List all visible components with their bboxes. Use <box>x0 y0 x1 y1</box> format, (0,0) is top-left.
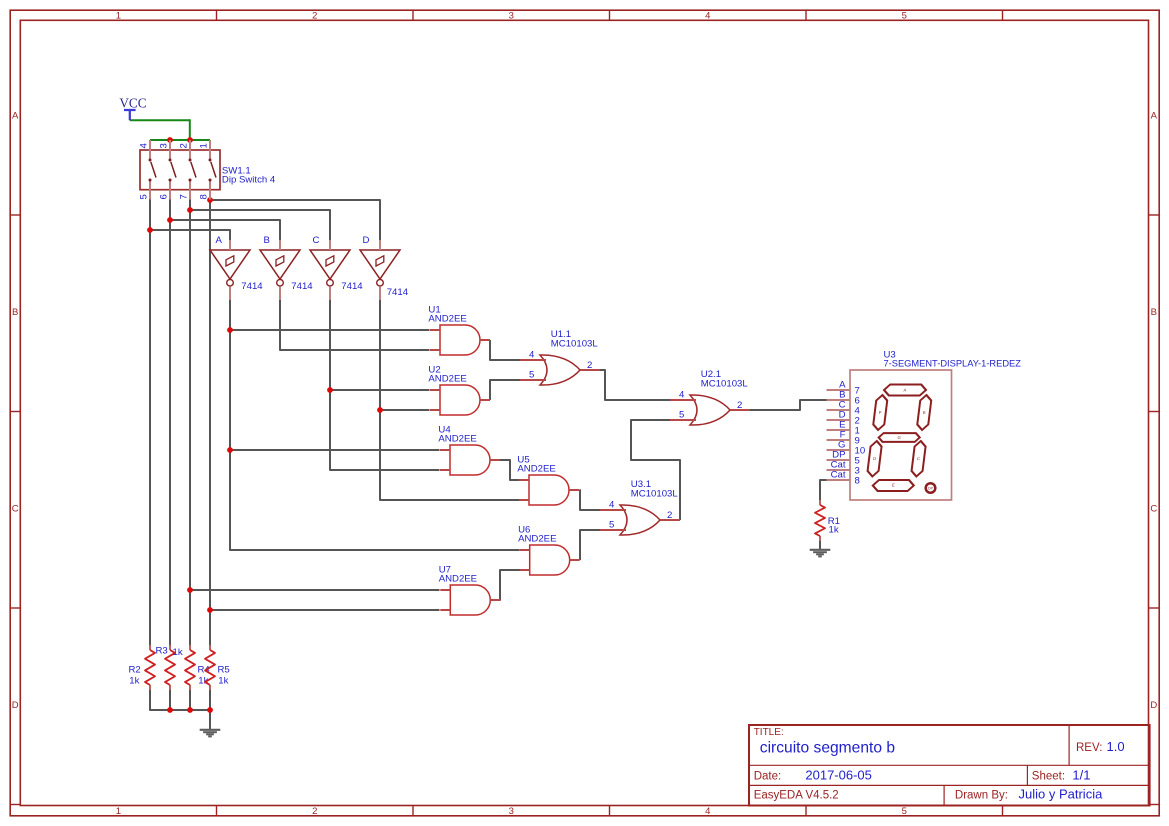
inverter D (7414) input stub <box>379 240 381 250</box>
svg-text:5: 5 <box>902 11 907 22</box>
resistor R3 top stub <box>169 645 171 650</box>
junction 190,210 <box>187 207 193 213</box>
wire inverter D output column <box>380 300 520 500</box>
svg-text:TITLE:: TITLE: <box>754 727 784 738</box>
wire U5 output to U3.1 pin4 <box>580 490 601 510</box>
svg-text:D: D <box>12 700 19 711</box>
svg-text:2: 2 <box>312 11 317 22</box>
inverter C (7414) triangle <box>310 250 350 279</box>
wire tap B y220 <box>170 220 280 240</box>
dip switch pole 3 lever <box>191 162 196 178</box>
svg-text:A: A <box>12 111 19 122</box>
display DP dot <box>926 483 936 493</box>
dip switch pole 1 top stub <box>149 140 151 160</box>
display pin D (2) <box>827 419 851 421</box>
svg-text:AND2EE: AND2EE <box>438 433 476 444</box>
and-gate U1 pin1 stub <box>430 329 440 331</box>
dip switch pole 2 contacts <box>169 159 172 162</box>
wire VCC green horizontal <box>130 119 190 121</box>
svg-text:8: 8 <box>855 476 860 487</box>
resistor R5 bottom stub <box>209 685 211 690</box>
and-gate U1 body <box>440 325 480 355</box>
title block REV divider <box>1068 725 1070 765</box>
dip switch pole 2 bottom stub <box>169 180 171 200</box>
or-gate U2.1 pin4 stub <box>670 399 696 401</box>
inverter D (7414) output stub <box>379 286 381 300</box>
display pin B (6) <box>827 399 851 401</box>
svg-text:Julio y Patricia: Julio y Patricia <box>1019 786 1104 801</box>
svg-text:7414: 7414 <box>241 281 263 292</box>
dip switch pole 4 contacts <box>209 159 212 162</box>
inverter C (7414) output stub <box>329 286 331 300</box>
inverter D (7414) triangle <box>360 250 400 279</box>
wire A to U4 input1 <box>230 449 440 451</box>
svg-text:2: 2 <box>667 510 672 521</box>
frame ruler ticks top <box>216 10 218 20</box>
svg-text:1k: 1k <box>218 675 228 686</box>
inverter C (7414) output bubble <box>327 279 334 286</box>
svg-text:B: B <box>1151 307 1157 318</box>
dip switch pole 2 lever <box>171 162 176 178</box>
and-gate U2 output stub <box>480 399 490 401</box>
svg-text:1k: 1k <box>829 525 839 536</box>
display pin G (10) <box>827 449 851 451</box>
svg-text:5: 5 <box>609 520 614 531</box>
junction green 190,140 <box>187 137 193 143</box>
junction 190,590 <box>187 587 193 593</box>
wire VCC green vertical <box>189 119 191 140</box>
display segments group <box>865 385 933 492</box>
resistor R1 zigzag <box>815 505 825 536</box>
svg-text:VCC: VCC <box>119 96 146 111</box>
and-gate U6 body <box>530 545 570 575</box>
wire tap D y200 <box>210 200 380 240</box>
and-gate U2 pin1 stub <box>430 389 440 391</box>
svg-text:REV:: REV: <box>1076 742 1102 754</box>
svg-text:AND2EE: AND2EE <box>439 573 477 584</box>
or-gate U3.1 pin5 stub <box>600 529 626 531</box>
wire inverter A output column <box>230 300 520 550</box>
or-gate U3.1 pin4 stub <box>600 509 626 511</box>
display pin DP (5) <box>827 459 851 461</box>
junction 170,220 <box>167 217 173 223</box>
or-gate U2.1 pin5 stub <box>670 419 696 421</box>
inverter D (7414) hysteresis symbol <box>376 256 384 266</box>
svg-text:Drawn By:: Drawn By: <box>955 789 1008 801</box>
svg-text:4: 4 <box>705 806 710 817</box>
svg-text:Dip Switch 4: Dip Switch 4 <box>222 174 276 185</box>
svg-text:EasyEDA V4.5.2: EasyEDA V4.5.2 <box>754 789 839 801</box>
and-gate U7 pin2 stub <box>440 609 450 611</box>
or-gate U1.1 pin5 stub <box>520 379 546 381</box>
and-gate U5 body <box>529 475 569 505</box>
dip switch pole 1 bottom stub <box>149 180 151 200</box>
title block outer <box>749 725 1150 806</box>
svg-text:5: 5 <box>679 410 684 421</box>
wire R1 to ground <box>819 541 821 550</box>
svg-text:MC10103L: MC10103L <box>701 379 749 390</box>
wire ground stub <box>209 710 211 730</box>
and-gate U7 pin1 stub <box>440 589 450 591</box>
svg-text:2: 2 <box>737 400 742 411</box>
wire green bus to switch pins <box>150 139 210 141</box>
svg-text:Date:: Date: <box>754 771 782 783</box>
junction 230,330 <box>227 327 233 333</box>
svg-text:R4: R4 <box>198 665 211 676</box>
svg-text:1: 1 <box>116 806 121 817</box>
wire U6 output to U3.1 pin5 <box>580 530 601 560</box>
svg-text:7-SEGMENT-DISPLAY-1-REDEZ: 7-SEGMENT-DISPLAY-1-REDEZ <box>884 359 1022 369</box>
wire pin6 column x170 <box>169 200 171 646</box>
and-gate U2 body <box>440 385 480 415</box>
or-gate U1.1 pin4 stub <box>520 359 546 361</box>
dip switch pole 3 bottom stub <box>189 180 191 200</box>
svg-text:2017-06-05: 2017-06-05 <box>805 768 872 783</box>
svg-text:2: 2 <box>179 143 190 148</box>
dip switch SW1.1 body <box>140 150 220 190</box>
svg-text:A: A <box>1151 111 1158 122</box>
dip switch pole 3 top stub <box>189 140 191 160</box>
svg-text:G: G <box>897 435 901 440</box>
svg-text:circuito segmento b: circuito segmento b <box>760 740 896 757</box>
resistor R4 bottom stub <box>189 685 191 690</box>
and-gate U2 pin2 stub <box>430 409 440 411</box>
wire R5 bottom <box>209 690 211 710</box>
svg-text:7414: 7414 <box>387 287 409 298</box>
svg-text:R2: R2 <box>129 665 141 676</box>
junction 210,710 <box>207 707 213 713</box>
VCC net flag <box>124 110 136 120</box>
wire U2 output to U1.1 pin5 <box>490 380 521 400</box>
inverter B (7414) hysteresis symbol <box>276 256 284 266</box>
junction 210,200 <box>207 197 213 203</box>
wire pin7 column x190 <box>189 200 191 646</box>
and-gate U4 pin1 stub <box>440 449 450 451</box>
svg-text:C: C <box>313 235 320 246</box>
svg-text:AND2EE: AND2EE <box>517 463 555 474</box>
svg-text:AND2EE: AND2EE <box>518 533 556 544</box>
dip switch pole 4 top stub <box>209 140 211 160</box>
dip switch pole 4 lever <box>211 162 216 178</box>
svg-text:B: B <box>264 235 270 246</box>
svg-text:3: 3 <box>509 11 514 22</box>
inverter B (7414) output bubble <box>277 279 284 286</box>
svg-text:A: A <box>216 235 223 246</box>
or-gate U3.1 output stub <box>660 519 680 521</box>
or-gate U2.1 body <box>690 395 730 425</box>
junction green 170,140 <box>167 137 173 143</box>
svg-text:C: C <box>1150 504 1157 515</box>
or-gate U1.1 output stub <box>580 369 600 371</box>
ground under R1 <box>810 549 831 551</box>
wire D to U2 input2 <box>380 409 430 411</box>
and-gate U6 pin1 stub <box>520 549 530 551</box>
and-gate U6 output stub <box>570 559 580 561</box>
and-gate U7 output stub <box>490 599 500 601</box>
title block row line 2 <box>749 784 1150 786</box>
7-segment display U3 box <box>850 370 952 500</box>
and-gate U1 output stub <box>480 339 490 341</box>
display pin C (4) <box>827 409 851 411</box>
wire inverter B output to U1 pin2 <box>280 300 430 350</box>
svg-text:4: 4 <box>679 390 685 401</box>
frame ruler ticks left <box>10 214 20 216</box>
and-gate U6 pin2 stub <box>520 569 530 571</box>
svg-text:1/1: 1/1 <box>1072 768 1090 783</box>
svg-text:1: 1 <box>199 143 210 148</box>
svg-text:Cat: Cat <box>831 470 846 481</box>
svg-text:5: 5 <box>529 370 534 381</box>
dip switch pole 1 contacts <box>149 159 152 162</box>
svg-text:D: D <box>873 456 877 461</box>
wire U1.1 output to U2.1 pin4 <box>600 370 671 400</box>
resistor R2 zigzag <box>145 650 155 685</box>
display pin A (7) <box>827 389 851 391</box>
svg-text:3: 3 <box>159 143 170 148</box>
resistor R2 top stub <box>149 645 151 650</box>
inverter D (7414) output bubble <box>377 279 384 286</box>
svg-text:7: 7 <box>179 194 190 199</box>
svg-text:4: 4 <box>139 143 150 149</box>
svg-text:4: 4 <box>529 350 535 361</box>
resistor R1 bottom stub <box>819 536 821 541</box>
frame ruler ticks right <box>1149 214 1160 216</box>
and-gate U1 pin2 stub <box>430 349 440 351</box>
svg-text:B: B <box>12 307 18 318</box>
inverter C (7414) input stub <box>329 240 331 250</box>
and-gate U5 pin1 stub <box>519 479 529 481</box>
svg-text:DP: DP <box>928 487 934 491</box>
and-gate U4 body <box>450 445 490 475</box>
svg-text:2: 2 <box>587 360 592 371</box>
junction 330,390 <box>327 387 333 393</box>
wire display Cat pin to R1 <box>820 480 827 500</box>
svg-text:7414: 7414 <box>341 281 363 292</box>
or-gate U2.1 output stub <box>730 409 750 411</box>
wire pin8 column x210 <box>209 200 211 646</box>
wire U4 output to U5 input1 <box>500 460 521 480</box>
wire R5 tap to U7 input2 <box>210 609 440 611</box>
svg-text:7414: 7414 <box>291 281 313 292</box>
svg-text:R5: R5 <box>218 665 230 676</box>
wire pin5 column x150 <box>149 200 151 646</box>
ground bottom rail <box>200 729 221 731</box>
junction 210,610 <box>207 607 213 613</box>
junction 190,710 <box>187 707 193 713</box>
resistor R3 bottom stub <box>169 685 171 690</box>
wire A to U1 input1 <box>230 329 430 331</box>
wire U2.1 output to display pin B <box>750 400 827 410</box>
svg-text:MC10103L: MC10103L <box>631 489 679 500</box>
wire R3 bottom <box>169 690 171 710</box>
dip switch pole 3 contacts <box>189 159 192 162</box>
resistor R1 top stub <box>819 500 821 505</box>
resistor R5 zigzag <box>205 650 215 685</box>
wire U7 output to U6 input2 <box>500 570 521 600</box>
inverter C (7414) hysteresis symbol <box>326 256 334 266</box>
wire R4 tap to U7 input1 <box>190 589 440 591</box>
svg-text:8: 8 <box>199 194 210 199</box>
svg-text:MC10103L: MC10103L <box>551 339 599 350</box>
svg-text:2: 2 <box>312 806 317 817</box>
svg-text:D: D <box>1150 700 1157 711</box>
svg-text:6: 6 <box>159 194 170 199</box>
wire R4 bottom <box>189 690 191 710</box>
title block row line 1 <box>749 764 1150 766</box>
wire inverter C output column <box>330 300 440 470</box>
resistor R5 top stub <box>209 645 211 650</box>
resistor R2 bottom stub <box>149 685 151 690</box>
resistor R4 top stub <box>189 645 191 650</box>
svg-text:D: D <box>363 235 370 246</box>
junction 380,410 <box>377 407 383 413</box>
display pin Cat (8) <box>827 479 851 481</box>
dip switch pole 1 lever <box>151 162 156 178</box>
resistor R4 zigzag <box>185 650 195 685</box>
and-gate U5 pin2 stub <box>519 499 529 501</box>
and-gate U4 output stub <box>490 459 500 461</box>
display segment letters <box>870 388 929 488</box>
svg-text:1k: 1k <box>173 647 183 658</box>
svg-text:5: 5 <box>902 806 907 817</box>
svg-text:3: 3 <box>509 806 514 817</box>
wire C to U2 input1 <box>330 389 430 391</box>
or-gate U3.1 body <box>620 505 660 535</box>
svg-text:1k: 1k <box>129 675 139 686</box>
svg-text:C: C <box>917 456 921 461</box>
junction 150,230 <box>147 227 153 233</box>
svg-text:1.0: 1.0 <box>1107 739 1125 754</box>
inverter A (7414) hysteresis symbol <box>226 256 234 266</box>
svg-text:AND2EE: AND2EE <box>428 313 466 324</box>
inverter B (7414) triangle <box>260 250 300 279</box>
title block Sheet divider <box>1026 765 1028 785</box>
wire tap C y210 <box>190 210 330 240</box>
svg-text:R3: R3 <box>156 646 168 657</box>
and-gate U7 body <box>450 585 490 615</box>
junction 230,450 <box>227 447 233 453</box>
wire bottom rail to ground <box>150 690 210 710</box>
junction 170,710 <box>167 707 173 713</box>
wire U1 output to U1.1 pin4 <box>490 340 521 360</box>
svg-text:4: 4 <box>609 500 615 511</box>
inverter A (7414) triangle <box>210 250 250 279</box>
display pin F (9) <box>827 439 851 441</box>
inverter B (7414) output stub <box>279 286 281 300</box>
svg-text:Sheet:: Sheet: <box>1032 771 1065 783</box>
and-gate U4 pin2 stub <box>440 469 450 471</box>
wire tap A y230 <box>150 230 230 240</box>
display pin E (1) <box>827 429 851 431</box>
dip switch pole 2 top stub <box>169 140 171 160</box>
frame ruler ticks bottom <box>216 806 218 817</box>
inverter A (7414) output stub <box>229 286 231 300</box>
inverter B (7414) input stub <box>279 240 281 250</box>
svg-text:AND2EE: AND2EE <box>428 373 466 384</box>
svg-text:4: 4 <box>705 11 710 22</box>
or-gate U1.1 body <box>540 355 580 385</box>
inverter A (7414) input stub <box>229 240 231 250</box>
svg-text:5: 5 <box>139 194 150 199</box>
dip switch pole 4 bottom stub <box>209 180 211 200</box>
svg-text:C: C <box>12 504 19 515</box>
inverter A (7414) output bubble <box>227 279 234 286</box>
and-gate U5 output stub <box>569 489 579 491</box>
svg-text:1: 1 <box>116 11 121 22</box>
title block DrawnBy divider <box>943 785 945 805</box>
display pin Cat (3) <box>827 469 851 471</box>
resistor R3 zigzag <box>165 650 175 685</box>
wire U3.1 output to U2.1 pin5 <box>631 420 680 520</box>
